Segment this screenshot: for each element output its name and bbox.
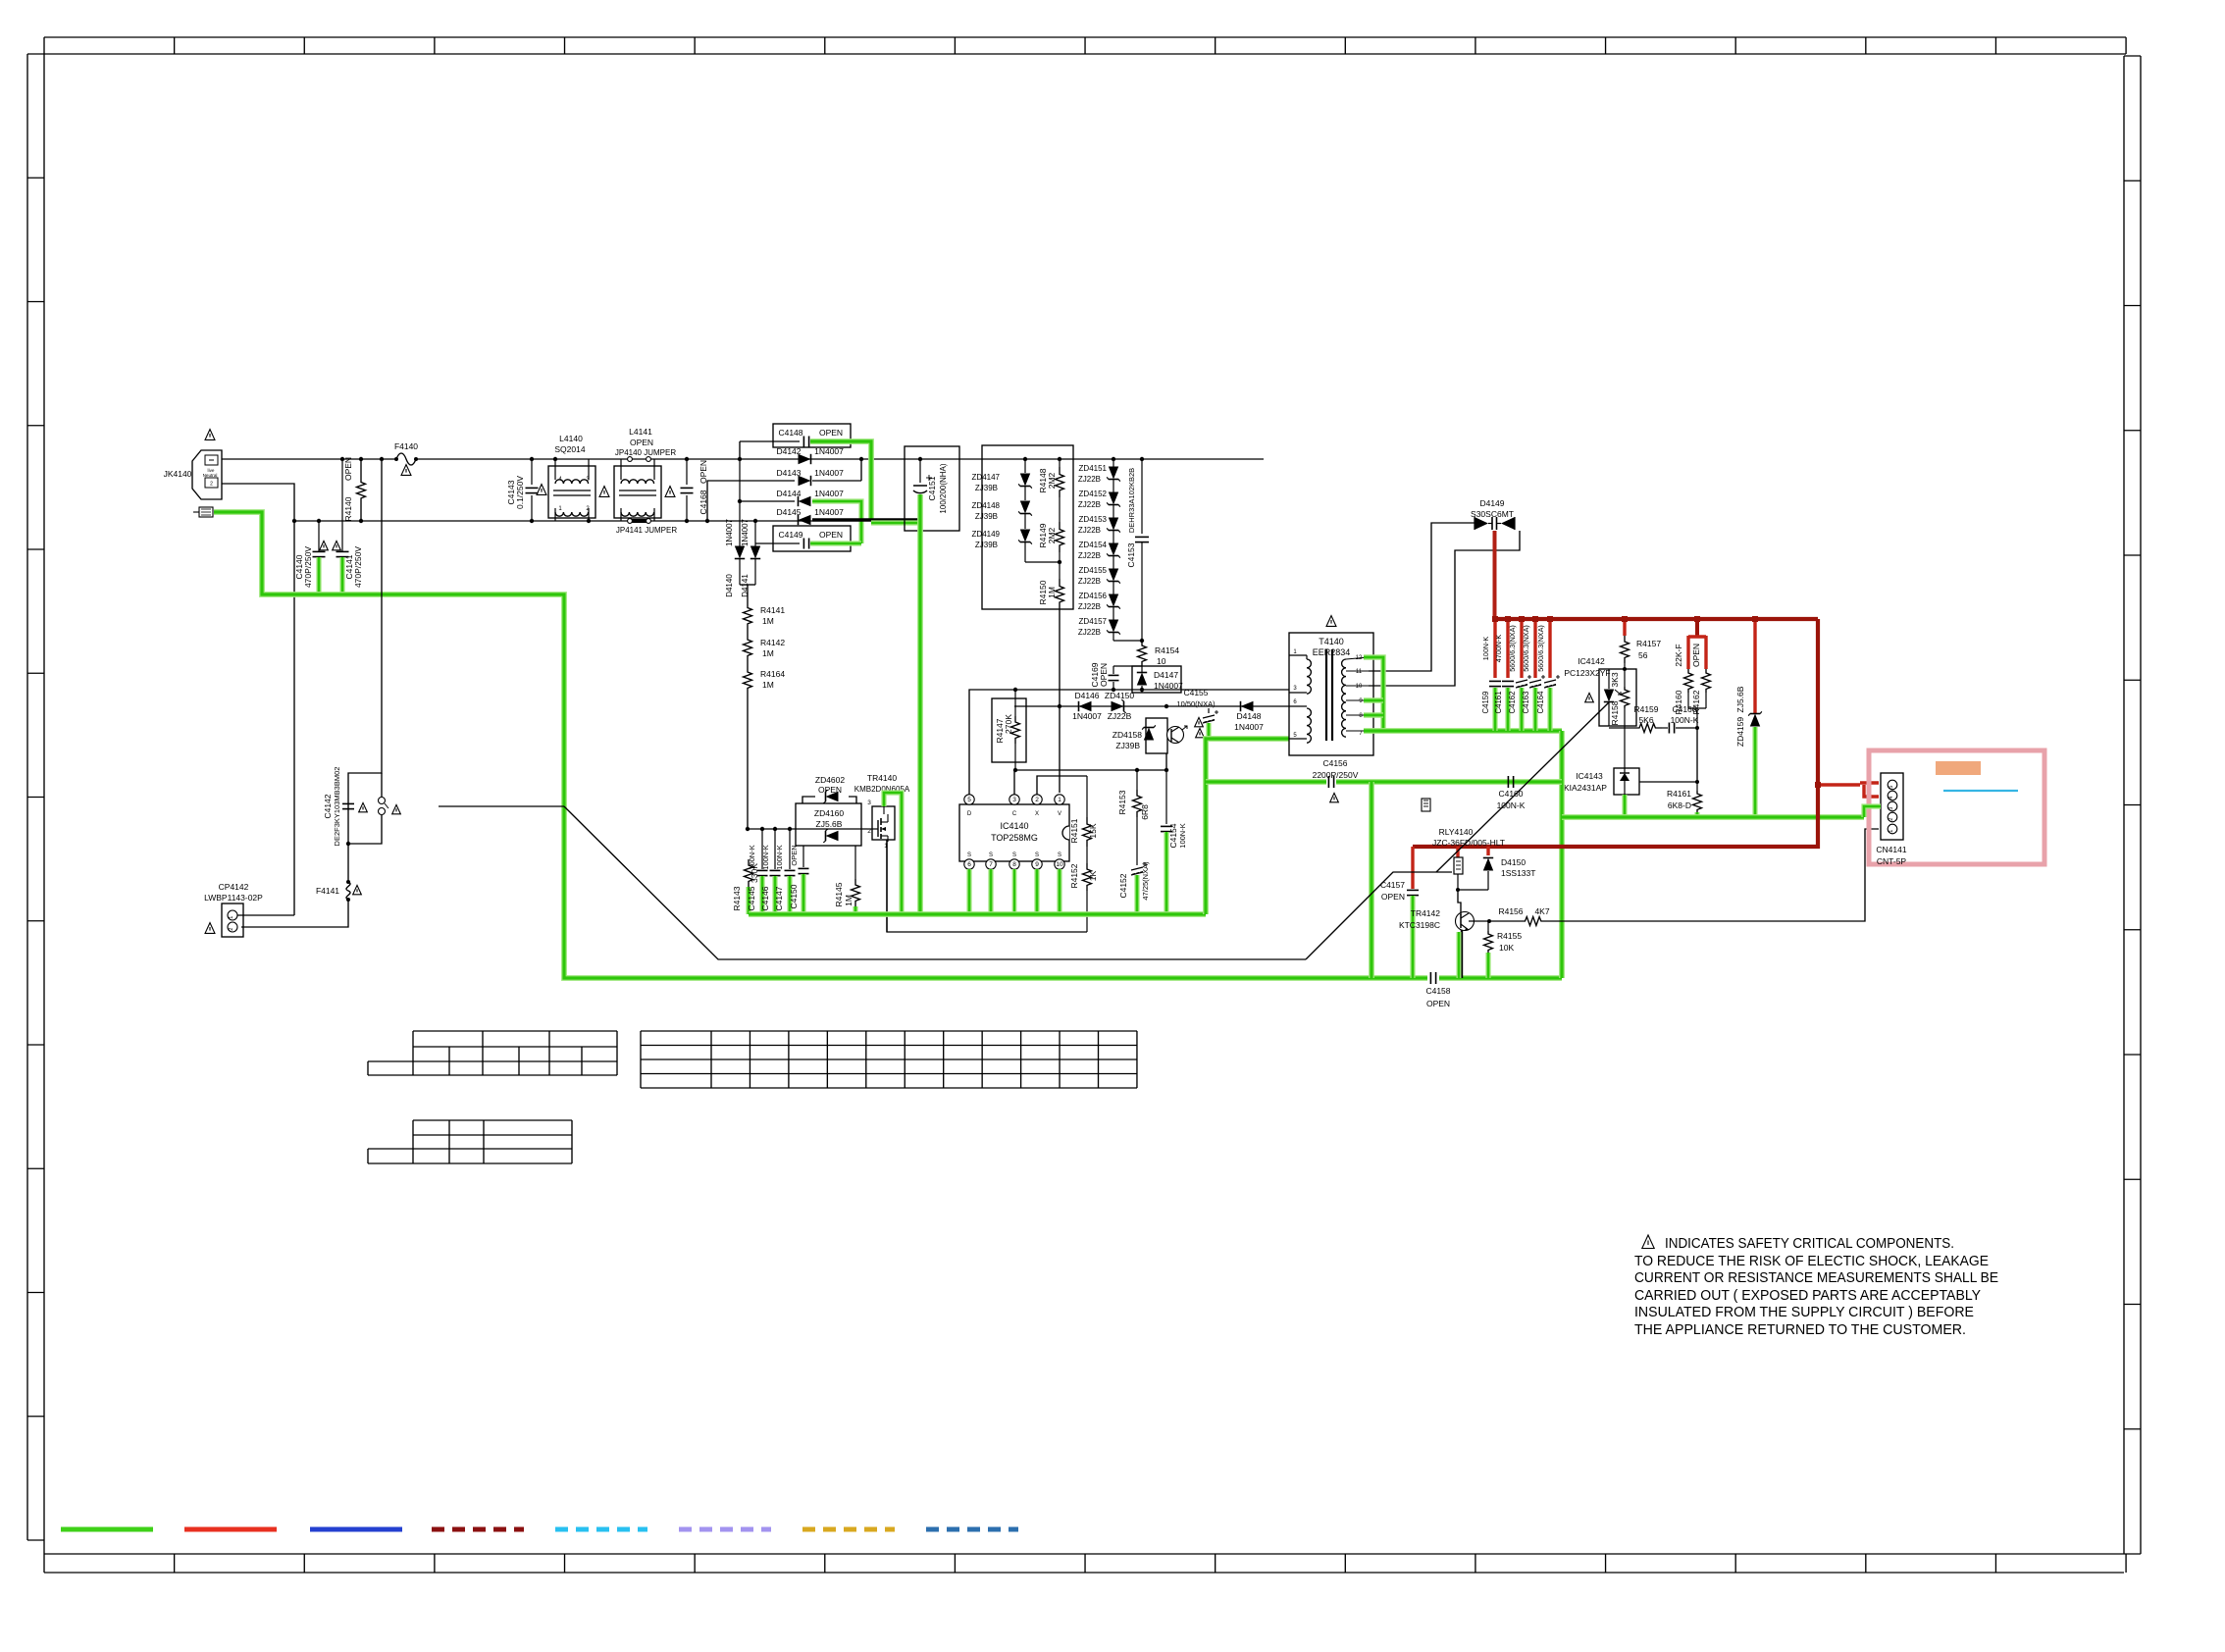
svg-text:2: 2 <box>1035 797 1039 803</box>
svg-text:1N4007: 1N4007 <box>741 518 750 546</box>
connector CP4142 LWBP1143-02P <box>204 882 294 937</box>
svg-text:C4159: C4159 <box>1481 692 1490 714</box>
connector CN4141 CNT-5P <box>1876 773 1906 866</box>
diode D4146 1N4007 <box>1072 691 1102 721</box>
wire green primary riser <box>1206 739 1289 914</box>
svg-text:R4155: R4155 <box>1497 931 1522 941</box>
svg-text:C4147: C4147 <box>774 886 784 910</box>
svg-text:2: 2 <box>867 828 871 835</box>
capacitor C4158 (OPEN) <box>1425 972 1450 1008</box>
svg-text:0.1/250V: 0.1/250V <box>515 476 525 509</box>
wire startup row <box>1014 705 1166 707</box>
svg-text:ZD4159: ZD4159 <box>1735 717 1745 748</box>
resistor R4158 3K3 <box>1610 669 1630 728</box>
wire pin3 drop <box>1013 770 1015 795</box>
wire green C4140 tail <box>316 557 321 594</box>
resistor R4164 1M <box>744 666 786 694</box>
svg-text:C4153: C4153 <box>1126 542 1136 567</box>
svg-text:R4145: R4145 <box>834 882 844 906</box>
diode D4147 1N4007 <box>1132 666 1183 693</box>
svg-text:ZJ39B: ZJ39B <box>975 541 998 549</box>
warning triangle <box>1195 717 1204 726</box>
svg-text:100N-K: 100N-K <box>1481 637 1490 661</box>
svg-text:ZJ39B: ZJ39B <box>975 512 998 521</box>
wire D4142/43 join <box>860 459 862 481</box>
node dot <box>738 457 742 461</box>
svg-text:470P/250V: 470P/250V <box>303 546 313 588</box>
svg-text:D4149: D4149 <box>1479 498 1504 508</box>
resistor R4141 1M <box>744 602 786 629</box>
wire IC4140 pin8 <box>1013 869 1016 912</box>
wire R4150 down to startup row <box>1059 609 1061 793</box>
wire live rail <box>222 458 395 460</box>
svg-text:100N-K: 100N-K <box>1178 823 1187 848</box>
svg-text:ZJ39B: ZJ39B <box>975 484 998 492</box>
svg-text:1K: 1K <box>1088 870 1098 881</box>
svg-text:1SS133T: 1SS133T <box>1501 868 1535 878</box>
svg-text:1: 1 <box>1889 830 1894 833</box>
svg-text:1M: 1M <box>762 680 774 690</box>
svg-text:22K-F: 22K-F <box>1674 644 1683 666</box>
svg-text:3: 3 <box>1889 807 1894 810</box>
svg-text:C4154: C4154 <box>1168 823 1178 848</box>
resistor R4140 (OPEN) <box>343 457 366 523</box>
wire D4143 branch <box>707 481 795 521</box>
warning triangle <box>205 923 215 934</box>
svg-text:R4157: R4157 <box>1636 639 1661 648</box>
wire startup row right <box>1166 705 1289 707</box>
zener ZD4150 ZJ22B <box>1105 691 1135 721</box>
svg-text:4K7: 4K7 <box>1534 906 1549 916</box>
svg-text:6R8: 6R8 <box>1140 804 1150 820</box>
zener chain ZD4151-ZD4157 ZJ22B <box>1078 457 1120 641</box>
svg-text:C4161: C4161 <box>1494 692 1503 714</box>
svg-text:ZD4158: ZD4158 <box>1112 730 1143 740</box>
svg-text:F4141: F4141 <box>316 886 339 896</box>
svg-text:3: 3 <box>867 800 871 806</box>
wire green C4163 tail <box>1532 688 1537 731</box>
diode D4144 1N4007 <box>776 489 844 506</box>
svg-text:47/25(NXA): 47/25(NXA) <box>1141 861 1150 901</box>
svg-text:IC4142: IC4142 <box>1578 656 1605 666</box>
wire green D4144 right <box>812 500 861 502</box>
capacitor C4150 (OPEN) <box>789 845 809 908</box>
wire neutral rail <box>294 520 812 522</box>
capacitor C4141 470P/250V <box>336 457 364 588</box>
IC U IC4140 TOP258MG <box>959 795 1069 869</box>
capacitor C4145 100N-K <box>747 827 768 911</box>
capacitor C4169 (OPEN) <box>1090 662 1144 692</box>
svg-text:S: S <box>1058 852 1061 858</box>
wire green chassis right of C4158 <box>1439 975 1562 981</box>
svg-text:DEHR33A102KB2B: DEHR33A102KB2B <box>1127 468 1136 533</box>
wire green C4147 tail <box>787 876 792 914</box>
svg-text:ZD4148: ZD4148 <box>972 501 1001 510</box>
svg-text:CARRIED OUT ( EXPOSED PARTS AR: CARRIED OUT ( EXPOSED PARTS ARE ACCEPTAB… <box>1634 1288 1981 1304</box>
svg-text:ZD4602: ZD4602 <box>815 775 846 785</box>
capacitor C4160 100N-K <box>1497 776 1526 810</box>
wire green secondary return <box>1364 728 1562 734</box>
jumper JP4140 <box>615 448 676 461</box>
svg-text:D: D <box>967 811 972 817</box>
svg-text:JP4140 JUMPER: JP4140 JUMPER <box>615 448 676 457</box>
svg-text:R4154: R4154 <box>1155 645 1179 655</box>
svg-text:SQ2014: SQ2014 <box>554 444 585 454</box>
wire opto pointer diagonal <box>1436 702 1609 872</box>
svg-text:OPEN: OPEN <box>819 530 843 540</box>
capacitor C4143 0.1/250V <box>506 457 539 523</box>
svg-text:OPEN: OPEN <box>343 457 353 481</box>
svg-text:R4162: R4162 <box>1691 690 1701 714</box>
wire green pin8 stub <box>1364 712 1383 717</box>
connector JK4140 AC inlet <box>164 450 222 499</box>
wire D4144 branch <box>740 500 795 502</box>
svg-text:OPEN: OPEN <box>630 438 653 447</box>
line filter L4141 (OPEN) <box>614 427 661 521</box>
resistor R4151 15K <box>1069 776 1098 847</box>
resistor R4142 1M <box>744 634 786 661</box>
svg-text:1M: 1M <box>762 648 774 658</box>
svg-text:ZJ22B: ZJ22B <box>1078 602 1101 611</box>
diode D4140 1N4007 <box>725 459 745 597</box>
svg-text:JZC-36FD/005-HLT: JZC-36FD/005-HLT <box>1432 838 1505 848</box>
capacitor C4168 (OPEN) <box>681 457 709 523</box>
svg-text:ZJ22B: ZJ22B <box>1078 577 1101 586</box>
highlight fill <box>1936 761 1981 775</box>
svg-text:C4164: C4164 <box>1536 691 1545 714</box>
wire control rail <box>969 690 1289 800</box>
svg-text:100/200(NHA): 100/200(NHA) <box>939 463 948 513</box>
svg-text:ZD4149: ZD4149 <box>972 530 1001 539</box>
resistor R4157 56 <box>1621 616 1662 671</box>
svg-text:CNT-5P: CNT-5P <box>1877 856 1907 866</box>
wire pin11 to D4149 <box>1369 523 1475 671</box>
svg-text:D4146: D4146 <box>1074 691 1099 700</box>
svg-text:10: 10 <box>1356 684 1363 690</box>
svg-text:R4161: R4161 <box>1667 789 1691 799</box>
legend line colour samples <box>61 1527 1018 1532</box>
svg-text:TR4142: TR4142 <box>1411 908 1441 918</box>
diode D4148 1N4007 <box>1234 701 1264 732</box>
svg-text:1N4007: 1N4007 <box>814 468 844 478</box>
wire green R4161 tail <box>1694 812 1699 817</box>
warning triangle <box>320 541 329 549</box>
svg-text:S: S <box>1012 852 1016 858</box>
svg-text:D4143: D4143 <box>776 468 801 478</box>
wire opto row <box>1609 727 1632 729</box>
ferrite bead <box>1422 799 1430 811</box>
svg-text:1M: 1M <box>844 895 854 906</box>
svg-text:C4156: C4156 <box>1322 758 1347 768</box>
svg-text:JP4141 JUMPER: JP4141 JUMPER <box>616 526 677 535</box>
warning triangle <box>205 430 215 440</box>
svg-text:15K: 15K <box>1088 823 1098 838</box>
svg-text:C4162: C4162 <box>1508 692 1517 714</box>
svg-text:R4151: R4151 <box>1069 818 1079 843</box>
fuse F4140 <box>394 441 418 465</box>
svg-text:ZD4156: ZD4156 <box>1079 592 1108 600</box>
svg-text:1M: 1M <box>1047 587 1057 598</box>
svg-text:LWBP1143-02P: LWBP1143-02P <box>204 893 263 903</box>
highlight box <box>1869 750 2044 864</box>
svg-text:2M2: 2M2 <box>1047 527 1057 543</box>
wire green pin9 stub <box>1364 697 1383 702</box>
zener ZD4602 (OPEN) <box>802 775 856 803</box>
wire <box>747 661 749 666</box>
wire F4141 to CP4142 <box>241 901 348 927</box>
svg-text:2200P/250V: 2200P/250V <box>1313 770 1359 780</box>
diode D4141 1N4007 <box>741 518 760 596</box>
warning triangle <box>1585 693 1594 701</box>
wire gate row <box>748 828 867 830</box>
wire pin10 to D4149 <box>1369 531 1520 686</box>
svg-text:OPEN: OPEN <box>1426 999 1450 1008</box>
capacitor C4155 10/50(NXA) <box>1176 688 1218 723</box>
svg-text:Neutral: Neutral <box>203 473 218 478</box>
wire green C4149 right <box>810 541 861 545</box>
svg-text:1N4007: 1N4007 <box>1234 722 1264 732</box>
svg-text:7: 7 <box>989 861 993 868</box>
capacitor C4166 100N-K <box>1662 704 1699 734</box>
node dot <box>346 842 350 846</box>
wire green R4145 tail <box>853 906 857 914</box>
svg-text:ZJ39B: ZJ39B <box>1115 741 1140 750</box>
svg-text:D4142: D4142 <box>776 446 801 456</box>
wire green Y-link <box>1206 779 1326 785</box>
capacitor C4147 100N-K <box>774 827 796 911</box>
svg-text:R4159: R4159 <box>1633 704 1658 714</box>
svg-text:8: 8 <box>1012 861 1016 868</box>
capacitor C4146 100N-K <box>760 827 781 911</box>
svg-text:X: X <box>1035 811 1039 817</box>
svg-text:C4151: C4151 <box>927 476 937 500</box>
svg-text:6: 6 <box>967 861 971 868</box>
svg-text:F4140: F4140 <box>394 441 418 451</box>
svg-text:ZJ22B: ZJ22B <box>1078 551 1101 560</box>
svg-text:THE APPLIANCE RETURNED TO THE: THE APPLIANCE RETURNED TO THE CUSTOMER. <box>1634 1322 1966 1338</box>
svg-text:1N4007: 1N4007 <box>814 446 844 456</box>
svg-text:3: 3 <box>1012 797 1016 803</box>
wire green IC4143 tail <box>1622 795 1627 817</box>
svg-text:S: S <box>989 852 993 858</box>
resistor R4143 330K <box>732 829 759 911</box>
svg-text:11: 11 <box>1356 669 1363 675</box>
svg-text:JK4140: JK4140 <box>164 469 192 479</box>
svg-text:1: 1 <box>1058 797 1061 803</box>
wire green ZD4159 tail <box>1752 727 1757 817</box>
capacitor C4162 5600/6.3(NXA) <box>1508 616 1531 713</box>
wire green C4141 tail <box>339 557 344 594</box>
svg-text:ZJ22B: ZJ22B <box>1078 628 1101 637</box>
wire red relay feed <box>1413 619 1818 847</box>
svg-text:D4140: D4140 <box>725 574 734 597</box>
resistor R4153 6R8 <box>1117 770 1150 820</box>
svg-text:C4158: C4158 <box>1425 986 1450 996</box>
svg-text:5K6: 5K6 <box>1638 715 1653 725</box>
wire green along D4145 output <box>871 520 920 525</box>
wire green C4146 tail <box>772 876 777 914</box>
wire live rail after fuse <box>417 458 1264 460</box>
wire spark gap to chassis <box>439 805 564 807</box>
svg-text:ZD4147: ZD4147 <box>972 473 1001 482</box>
capacitor C4151 100/200(NHA) <box>905 446 959 531</box>
svg-text:R4142: R4142 <box>760 638 785 647</box>
svg-text:S: S <box>967 852 971 858</box>
wire green C4164 tail <box>1547 688 1552 731</box>
svg-text:10: 10 <box>1056 861 1063 868</box>
wire green IC4140 pin6 <box>966 869 971 912</box>
svg-text:D4150: D4150 <box>1501 857 1526 867</box>
resistor R4155 10K <box>1484 921 1523 953</box>
warning triangle <box>353 885 362 894</box>
diode D4145 1N4007 <box>776 507 844 525</box>
svg-text:100N-K: 100N-K <box>748 845 756 869</box>
svg-text:DE2F3KY103MB3BM02: DE2F3KY103MB3BM02 <box>333 767 341 847</box>
svg-text:R4152: R4152 <box>1069 863 1079 888</box>
svg-text:2M2: 2M2 <box>1047 472 1057 489</box>
IC opto IC4142 PC123X2YF <box>1564 656 1636 726</box>
transistor TR4142 KTC3198C <box>1399 890 1475 931</box>
warning triangle <box>392 804 401 813</box>
resistor R4154 10 <box>1138 641 1180 666</box>
svg-text:R4160: R4160 <box>1674 690 1683 714</box>
svg-text:IC4143: IC4143 <box>1576 771 1603 781</box>
transformer T4140 EER2834 <box>1289 633 1373 755</box>
wire red main bus <box>1495 617 1818 621</box>
svg-text:C4149: C4149 <box>778 530 802 540</box>
warning triangle <box>599 487 609 497</box>
svg-text:5: 5 <box>967 797 971 803</box>
svg-text:C: C <box>1012 811 1017 817</box>
wire green C4145 tail <box>759 876 764 914</box>
svg-text:TOP258MG: TOP258MG <box>991 833 1038 843</box>
wire R4160 node down <box>1696 728 1698 782</box>
wire green C4154 tail <box>1164 832 1168 914</box>
wire thick D4145 output <box>812 519 920 521</box>
wire diagonal to primary line <box>564 806 1306 959</box>
wire green R4143 tail <box>746 887 750 914</box>
svg-text:2: 2 <box>229 928 234 931</box>
svg-text:ZJ22B: ZJ22B <box>1078 500 1101 509</box>
warning triangle <box>359 802 368 811</box>
capacitor C4159 100N-K <box>1481 616 1501 713</box>
wire green C4157 tail <box>1410 896 1415 978</box>
highlight line <box>1943 790 2018 792</box>
safety note text block <box>1634 1235 1998 1338</box>
spark gap <box>379 798 389 815</box>
svg-text:ZD4154: ZD4154 <box>1079 541 1108 549</box>
wire green C4152 tail <box>1134 875 1139 914</box>
svg-text:D4147: D4147 <box>1154 670 1178 680</box>
resistor R4147 270K <box>992 688 1026 770</box>
diode D4142 1N4007 <box>776 446 844 464</box>
wire green pin12 riser <box>1364 657 1383 731</box>
capacitor C4164 5600/6.3(NXA) <box>1536 616 1560 713</box>
svg-text:C4163: C4163 <box>1522 692 1530 714</box>
svg-text:OPEN: OPEN <box>790 845 799 865</box>
revision table main <box>641 1031 1137 1088</box>
zener ZD4159 ZJ5.6B <box>1735 616 1762 747</box>
wire zener tail <box>1113 640 1142 642</box>
svg-text:ZD4160: ZD4160 <box>814 808 845 818</box>
revision table upper-left <box>368 1031 617 1075</box>
wire green IC4140 pin7 <box>988 869 993 912</box>
warning triangle <box>1196 728 1205 737</box>
svg-text:3K3: 3K3 <box>1610 672 1620 687</box>
wire green CN pin3 jog <box>1864 806 1881 817</box>
svg-text:CP4142: CP4142 <box>219 882 249 892</box>
svg-text:ZD4151: ZD4151 <box>1079 464 1108 473</box>
wire TR4142 base <box>1469 920 1520 922</box>
svg-text:R4141: R4141 <box>760 605 785 615</box>
wire green riser CN <box>1369 782 1374 978</box>
svg-text:5600/6.3(NXA): 5600/6.3(NXA) <box>1508 625 1517 672</box>
svg-text:ZJ22B: ZJ22B <box>1078 475 1101 484</box>
capacitor C4156 2200P/250V <box>1313 758 1359 788</box>
wire feedback row <box>1013 769 1166 771</box>
svg-text:4: 4 <box>1889 797 1894 800</box>
svg-text:ZJ22B: ZJ22B <box>1108 711 1132 721</box>
svg-text:KTC3198C: KTC3198C <box>1399 920 1440 930</box>
svg-text:OPEN: OPEN <box>819 428 843 438</box>
svg-text:S: S <box>1035 852 1039 858</box>
svg-text:1M: 1M <box>762 616 774 626</box>
wire red D4149 cathode drop <box>1493 531 1497 619</box>
wire green primary ground bus <box>749 911 1206 917</box>
wire <box>747 629 749 634</box>
wire D4140/41 join <box>740 584 755 586</box>
zener ZD4160 ZJ5.6B <box>796 803 861 846</box>
diode D4149 S30SC6MT <box>1471 498 1515 530</box>
svg-text:1N4007: 1N4007 <box>1072 711 1102 721</box>
svg-text:OPEN: OPEN <box>1099 663 1109 687</box>
svg-text:V: V <box>1058 811 1061 817</box>
wire green C4151 negative <box>917 494 923 912</box>
wire green IC4140 pin9 <box>1034 869 1039 912</box>
resistor R4159 5K6 <box>1632 704 1662 733</box>
capacitor C4161 4700N-K <box>1494 616 1514 713</box>
svg-text:R4158: R4158 <box>1610 700 1620 725</box>
svg-text:100N-K: 100N-K <box>761 845 770 869</box>
node dot <box>292 519 296 523</box>
warning triangle <box>1326 616 1336 627</box>
warning triangle <box>537 485 546 495</box>
capacitor C4163 5600/6.3(NXA) <box>1522 616 1545 713</box>
svg-text:R4156: R4156 <box>1498 906 1523 916</box>
svg-text:5600/6.3(NXA): 5600/6.3(NXA) <box>1522 625 1530 672</box>
capacitor C4153 DEHR33A102KB2B <box>1126 457 1149 641</box>
capacitor C4152 47/25(NXA) <box>1118 817 1150 901</box>
warning triangle <box>401 465 411 476</box>
svg-text:C4148: C4148 <box>778 428 802 438</box>
svg-text:D4148: D4148 <box>1236 711 1261 721</box>
wire green C4162 tail <box>1519 688 1524 731</box>
wire green IC4140 pin10 <box>1057 869 1061 912</box>
svg-text:9: 9 <box>1035 861 1039 868</box>
svg-text:ZD4153: ZD4153 <box>1079 515 1108 524</box>
svg-text:TR4140: TR4140 <box>867 773 898 783</box>
capacitor C4142 DE2F3KY103MB3BM02 <box>323 767 354 847</box>
capacitor C4149 (OPEN) box <box>755 526 851 551</box>
svg-text:ZJ22B: ZJ22B <box>1078 526 1101 535</box>
node dot <box>705 519 709 523</box>
wire source loop <box>887 840 1087 932</box>
wire red CN feed <box>1818 783 1860 786</box>
wire C4148 left leg <box>739 441 741 459</box>
warning triangle <box>665 487 675 497</box>
wire opto emitter <box>1165 753 1167 770</box>
resistor R4156 4K7 <box>1498 906 1549 926</box>
